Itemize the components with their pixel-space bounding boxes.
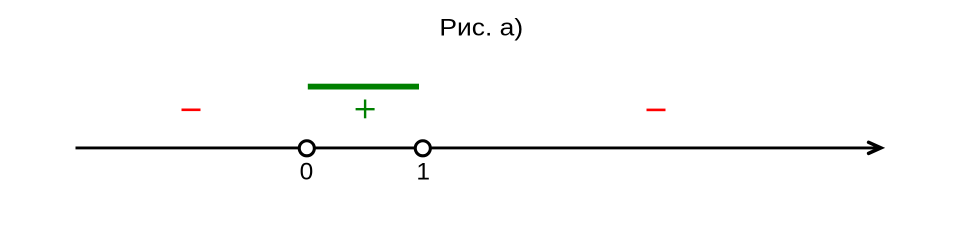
minus sign right (red)	[647, 109, 666, 112]
svg-text:0: 0	[300, 158, 314, 185]
green interval bar over (0,1)	[308, 84, 419, 90]
open circle at 1	[415, 141, 430, 156]
open circle at 0	[299, 141, 314, 156]
svg-text:Рис. а): Рис. а)	[439, 15, 523, 42]
axis arrowhead	[869, 142, 881, 153]
minus sign left (red)	[182, 109, 201, 112]
number line axis	[76, 146, 878, 149]
svg-text:1: 1	[416, 158, 430, 185]
plus sign (green)	[356, 100, 375, 119]
